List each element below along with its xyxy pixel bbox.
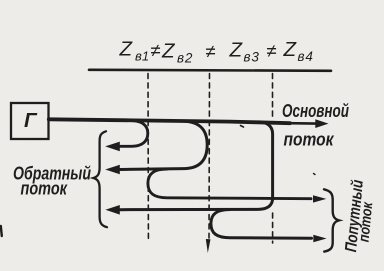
junction dashed line Zв3/Zв4 (upper part) xyxy=(272,74,274,120)
reflection loop at Zв1/Zв2 (wire) xyxy=(120,121,148,147)
reflection U-turn at Zв2/Zв3 (wire) xyxy=(120,121,208,169)
main line arrowhead xyxy=(315,119,328,128)
label Zв1 ≠ Zв2 ≠ Zв3 ≠ Zв4 xyxy=(119,38,314,66)
scan mark at left edge xyxy=(0,226,3,236)
scan speck right middle xyxy=(314,174,316,175)
left curly brace (обратный поток group) xyxy=(94,131,108,227)
forward arrow 2 (попутный поток) xyxy=(313,235,326,242)
scan speck near main arrow xyxy=(241,126,244,128)
re-reflection turn at Zв1 into forward line (wire) xyxy=(148,169,311,199)
junction dashed line Zв2/Zв3 xyxy=(208,74,211,239)
junction dashed line Zв1/Zв2 xyxy=(147,74,149,241)
paper grain overlay xyxy=(0,0,1,1)
main line (основной поток) xyxy=(49,119,290,123)
backward arrow 1 (обратный поток) xyxy=(105,142,120,152)
forward arrow 1 (попутный поток) xyxy=(313,195,326,202)
top rule xyxy=(89,70,331,71)
generator Г box xyxy=(11,103,49,139)
backward arrow 2 (обратный поток) xyxy=(105,165,120,175)
right curly brace (попутный поток group) xyxy=(324,189,339,251)
backward arrow 3 (обратный поток) xyxy=(105,205,119,215)
re-reflection turn at Zв2 into forward line (wire) xyxy=(211,210,312,239)
junction dashed line Zв3/Zв4 (lower part) xyxy=(272,213,274,243)
small down arrowhead at bottom of dashed line Zв2/Zв3 xyxy=(206,239,211,253)
reflection drop at Zв3/Zв4 (wire) xyxy=(120,122,273,210)
